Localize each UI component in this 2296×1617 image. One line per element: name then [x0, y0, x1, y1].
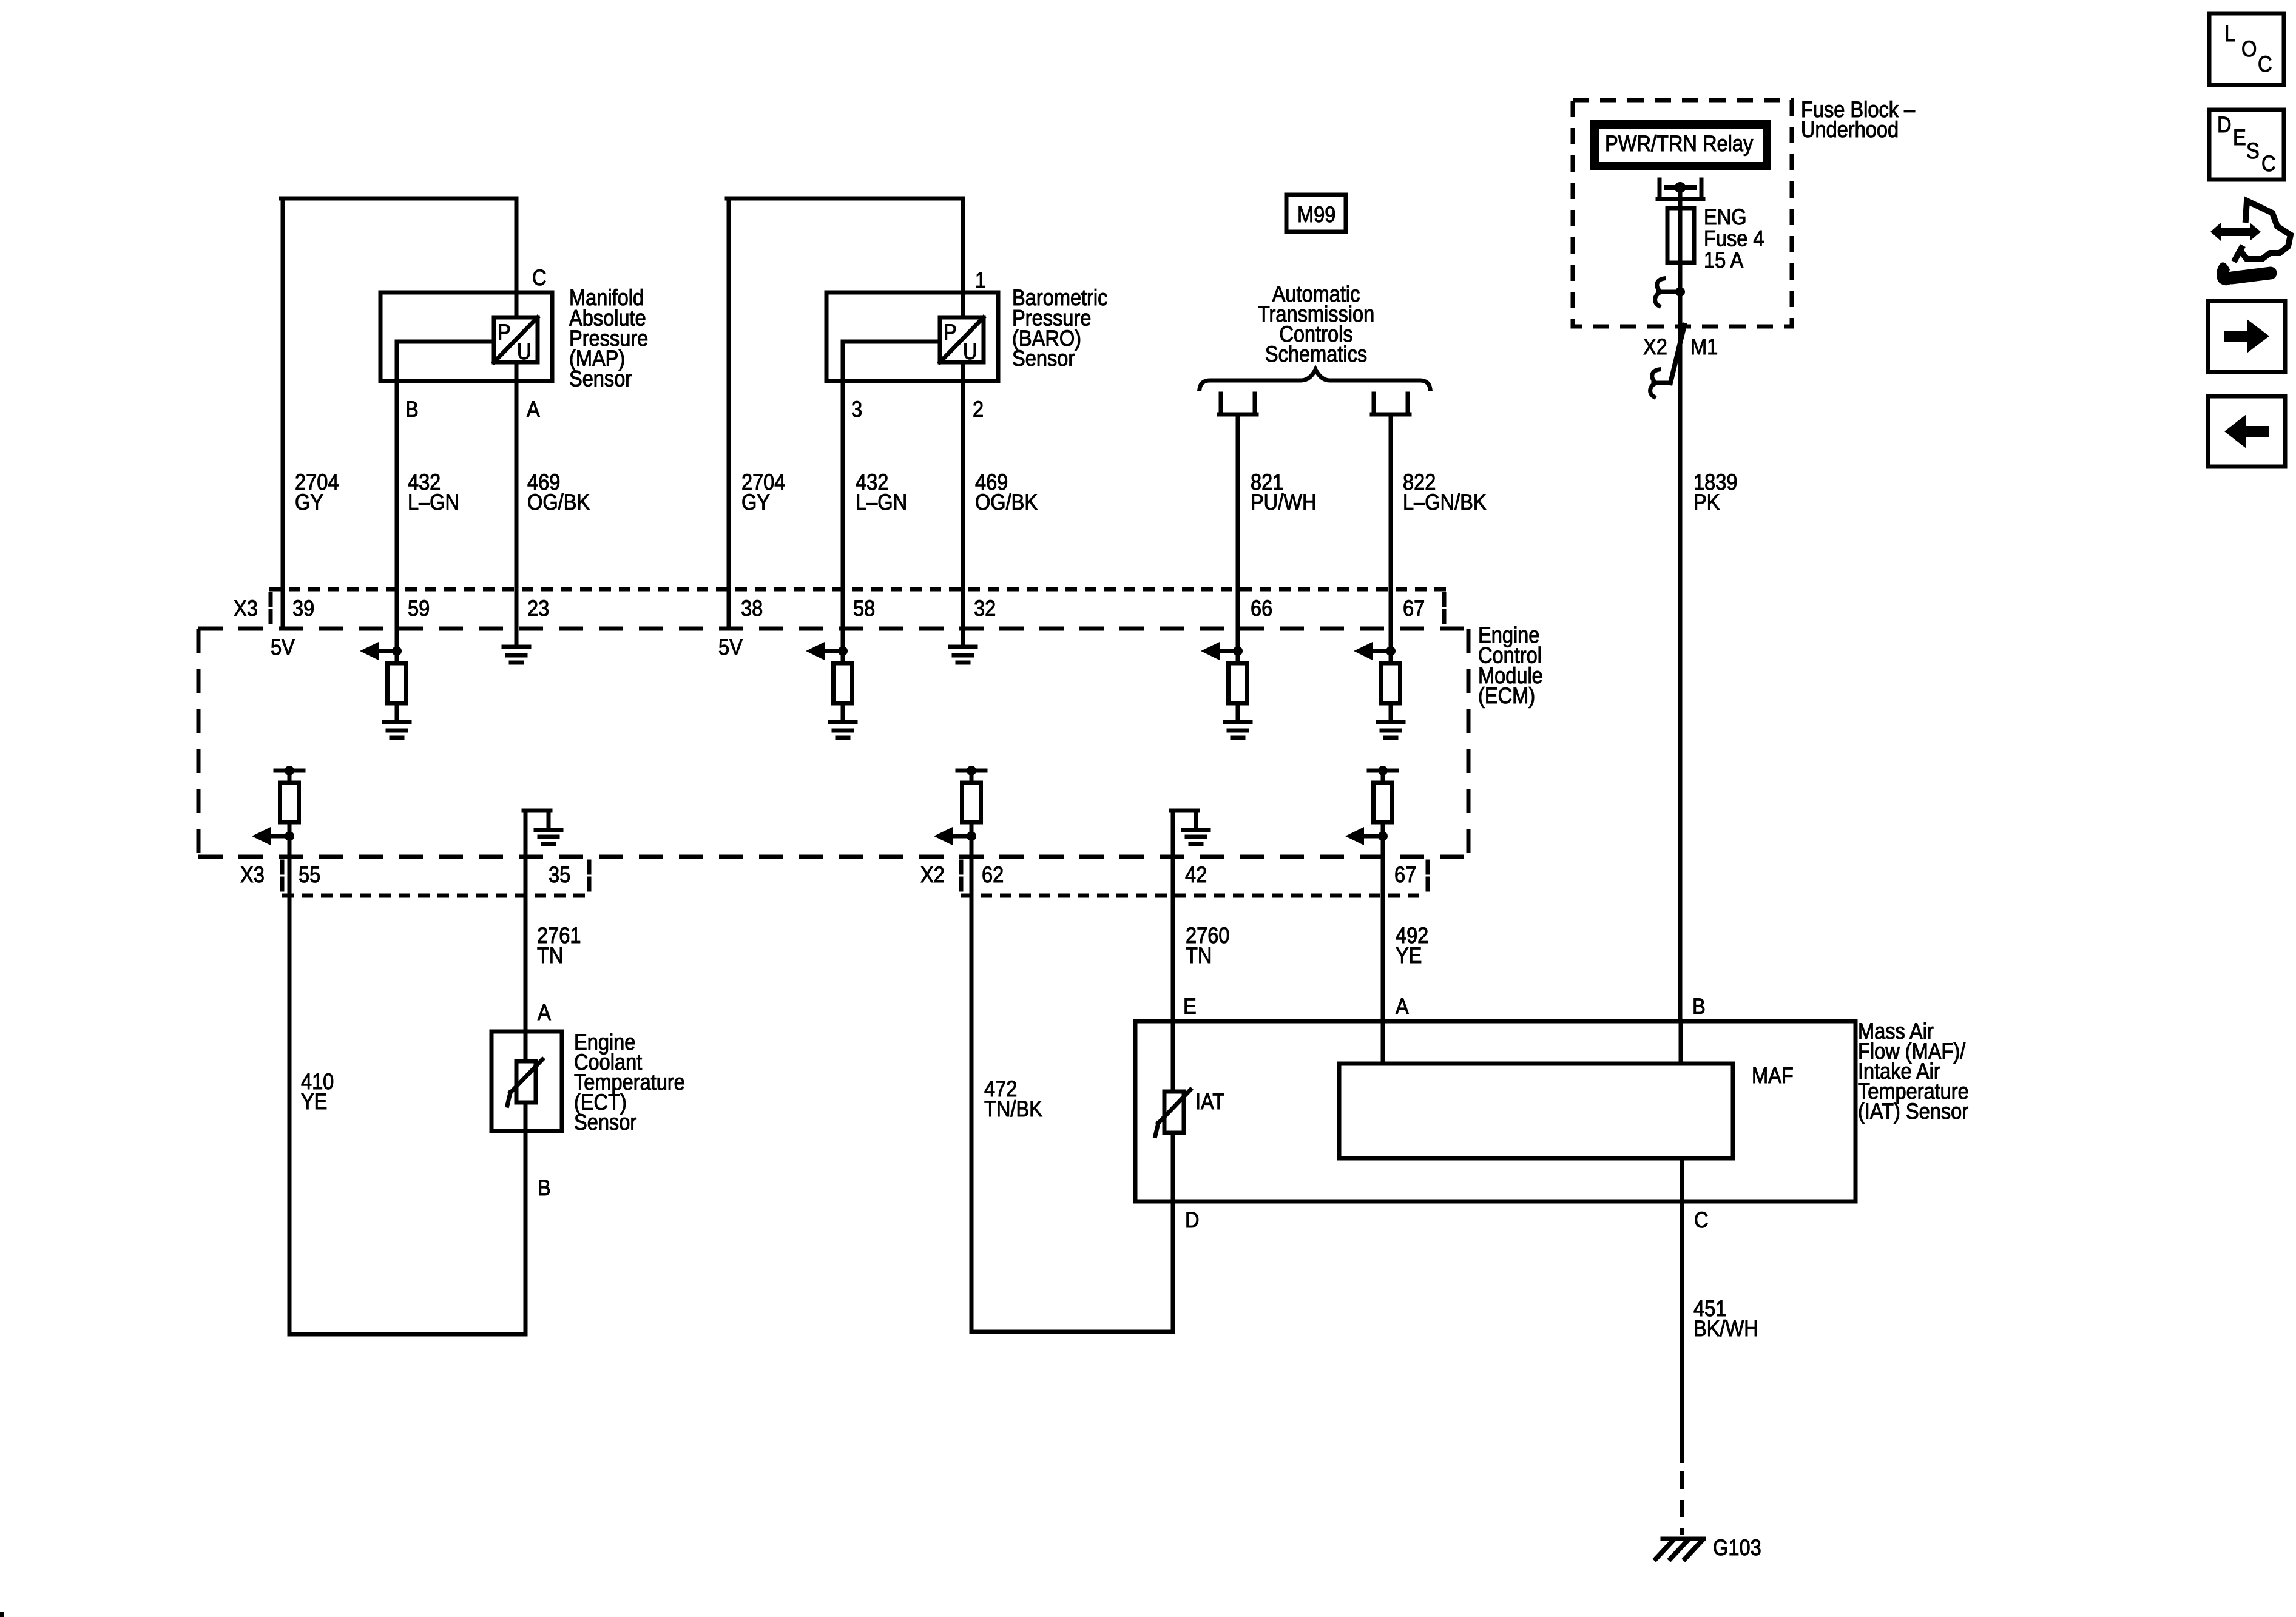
junction: fuse block internal tap: [1675, 287, 1685, 297]
svg-text:GY: GY: [295, 490, 323, 515]
svg-text:P: P: [498, 320, 511, 345]
resistor: ECM pull-down on BARO low reference (pin 58): [838, 646, 848, 656]
svg-text:E: E: [2233, 125, 2246, 150]
wire: MAF pin C ground, circuit 451 BK/WH: [1680, 1158, 1684, 1461]
connector hook lower: [1653, 381, 1670, 385]
connector separators row2: [280, 862, 285, 873]
wire: MAP 5V supply loop, circuit 2704 GY: [281, 198, 285, 629]
svg-text:X3: X3: [240, 862, 265, 887]
svg-text:5V: 5V: [271, 635, 295, 660]
relay output pin cup: [1658, 180, 1662, 199]
svg-text:MAF: MAF: [1752, 1063, 1794, 1088]
relay pin lead and junction: [1667, 185, 1694, 190]
connector bracket: transmission wire 822: [1372, 394, 1376, 414]
svg-text:S: S: [2246, 138, 2260, 163]
BARO sensor box: [826, 292, 998, 381]
svg-text:Schematics: Schematics: [1265, 342, 1367, 366]
fuse ENG Fuse 4 15 A: [1667, 208, 1694, 263]
svg-text:L: L: [2224, 21, 2235, 46]
wire A: MAP signal to ECM, circuit 469 OG/BK: [515, 362, 519, 647]
wire: circuit 2760 TN from ECM pin 42 to IAT pin E: [1171, 857, 1175, 1092]
svg-text:D: D: [1185, 1207, 1200, 1232]
MAP sensor P/U transducer symbol: [494, 317, 538, 362]
wire: MAP low reference, circuit 432 L-GN: [395, 342, 399, 663]
svg-text:5V: 5V: [718, 635, 743, 660]
svg-text:P: P: [944, 320, 957, 345]
wire: relay to fuse: [1678, 187, 1683, 208]
wire 3: BARO low reference stub: [843, 340, 940, 344]
M99 reference box: [1286, 195, 1346, 232]
wire 2: BARO signal to ECM, circuit 469 OG/BK: [961, 362, 965, 647]
thermistor: IAT sensor element: [1164, 1092, 1184, 1133]
connector row2: dotted line right segment: [961, 894, 1427, 898]
MAF electronics inner box: [1339, 1064, 1733, 1158]
wire: circuit 821 PU/WH to ECM pin 66: [1236, 414, 1240, 663]
svg-text:Sensor: Sensor: [574, 1110, 636, 1135]
svg-text:38: 38: [741, 596, 763, 621]
svg-text:(ECM): (ECM): [1478, 683, 1535, 708]
svg-text:G103: G103: [1713, 1535, 1761, 1560]
resistor: ECM 5V pull-up for ECT (pin 55): [275, 769, 303, 773]
svg-text:U: U: [517, 339, 532, 364]
wire 1: BARO signal, top segment: [961, 198, 965, 317]
wire: 451 dashed splice segment: [1680, 1471, 1684, 1535]
svg-text:B: B: [405, 397, 419, 422]
MAP sensor box: [380, 292, 552, 381]
svg-text:X2: X2: [920, 862, 945, 887]
svg-text:15 A: 15 A: [1704, 248, 1743, 272]
page corner dot: [0, 1612, 4, 1617]
svg-text:D: D: [2217, 112, 2232, 137]
ECM dashed outline right: [1467, 629, 1471, 857]
svg-text:X3: X3: [234, 596, 258, 621]
svg-text:3: 3: [851, 397, 862, 422]
resistor: ECM pull-down pin 67: [1386, 646, 1396, 656]
connector hook upper: [1657, 279, 1664, 290]
ground: MAP signal return inside ECM (pin 23): [504, 645, 529, 649]
wire: MAF pin B feed: [1679, 1021, 1683, 1064]
svg-text:A: A: [527, 397, 540, 422]
svg-text:BK/WH: BK/WH: [1693, 1316, 1758, 1341]
svg-text:IAT: IAT: [1195, 1089, 1224, 1114]
resistor: ECM 5V pull-up (pin 67): [1369, 769, 1397, 773]
svg-text:L–GN: L–GN: [408, 490, 459, 515]
wire: circuit 410 YE from ECM pin 55: [288, 857, 292, 1334]
ECM dashed outline left: [197, 629, 201, 857]
svg-text:M99: M99: [1297, 202, 1335, 227]
svg-text:59: 59: [408, 596, 430, 621]
svg-text:Underhood: Underhood: [1801, 117, 1899, 142]
svg-text:32: 32: [974, 596, 996, 621]
chassis ground G103: [1663, 1537, 1704, 1541]
svg-text:M1: M1: [1690, 334, 1718, 359]
connector X2 pin M1 pass-through slant: [1670, 325, 1684, 383]
ECM dashed outline top: [198, 627, 1471, 631]
svg-text:C: C: [1694, 1207, 1709, 1232]
wire: ECT loop bottom: [289, 1332, 525, 1337]
svg-text:YE: YE: [1396, 943, 1422, 968]
svg-text:TN: TN: [1186, 943, 1212, 968]
wire: circuit 822 L-GN/BK to ECM pin 67: [1389, 414, 1393, 663]
svg-text:B: B: [538, 1175, 551, 1200]
icon box left-arrow: [2208, 396, 2285, 467]
svg-text:Sensor: Sensor: [1012, 346, 1075, 371]
connector row2: dotted line left segment: [282, 894, 589, 898]
icon box LOC: [2209, 13, 2284, 85]
svg-text:PWR/TRN Relay: PWR/TRN Relay: [1605, 131, 1754, 156]
svg-text:OG/BK: OG/BK: [527, 490, 590, 515]
wire C: MAP signal, top segment: [515, 198, 519, 317]
svg-text:TN: TN: [537, 943, 563, 968]
svg-text:C: C: [2258, 52, 2272, 76]
connector row: dotted line: [269, 587, 1450, 592]
ground: ECM internal for IAT return (pin 42): [1171, 811, 1175, 857]
resistor: ECM 5V pull-up for IAT (pin 62): [957, 769, 985, 773]
svg-text:23: 23: [527, 596, 549, 621]
svg-text:35: 35: [549, 862, 570, 887]
thermistor: ECT sensor element: [524, 1031, 528, 1061]
svg-text:(IAT) Sensor: (IAT) Sensor: [1858, 1099, 1968, 1124]
svg-text:58: 58: [853, 596, 875, 621]
svg-text:E: E: [1183, 994, 1197, 1019]
wire: circuit 492 YE from ECM pin 67 to MAF pin A: [1381, 857, 1385, 1064]
wire: fuse to connector X2, circuit 1839 PK: [1678, 208, 1683, 1021]
connector bracket: transmission wire 821: [1219, 394, 1223, 414]
svg-text:C: C: [532, 265, 547, 290]
svg-text:YE: YE: [301, 1089, 327, 1114]
ground: ECM internal for ECT return (pin 35): [524, 811, 528, 857]
svg-text:PK: PK: [1693, 490, 1720, 515]
svg-text:67: 67: [1394, 862, 1416, 887]
ECM dashed outline bottom: [198, 855, 1471, 859]
ground: BARO signal return inside ECM (pin 32): [950, 645, 976, 649]
svg-text:67: 67: [1403, 596, 1425, 621]
icon: adjust/wrench symbol: [2210, 223, 2261, 241]
MAF/IAT sensor outer box: [1135, 1021, 1855, 1201]
brace: automatic transmission controls: [1200, 370, 1430, 389]
icon box DESC: [2209, 110, 2284, 180]
resistor: ECM pull-down on MAP low reference (pin 59): [392, 646, 402, 656]
svg-text:1: 1: [975, 268, 986, 292]
svg-text:Sensor: Sensor: [569, 366, 632, 391]
svg-text:2: 2: [973, 397, 984, 422]
connector separator dotted X3: [269, 594, 273, 605]
svg-text:42: 42: [1185, 862, 1207, 887]
svg-text:U: U: [963, 339, 977, 364]
wire: BARO low reference, circuit 432 L-GN: [841, 342, 845, 663]
svg-text:66: 66: [1251, 596, 1272, 621]
svg-text:A: A: [538, 1000, 551, 1025]
wire: circuit 2761 TN from ECM pin 35 to ECT pin A: [524, 857, 528, 1031]
connector separator dotted right end: [1442, 594, 1447, 605]
BARO sensor P/U transducer symbol: [940, 317, 984, 362]
wire: circuit 472 TN/BK from ECM pin 62: [970, 857, 974, 1332]
svg-text:L–GN: L–GN: [856, 490, 907, 515]
icon box right-arrow: [2208, 301, 2285, 372]
svg-text:55: 55: [299, 862, 320, 887]
ECT sensor box: [491, 1031, 562, 1131]
svg-text:A: A: [1396, 994, 1409, 1019]
wire: IAT pin D riser: [1171, 1133, 1175, 1332]
svg-text:C: C: [2261, 151, 2276, 176]
svg-text:B: B: [1692, 994, 1706, 1019]
svg-text:OG/BK: OG/BK: [975, 490, 1038, 515]
wire: BARO 5V supply loop, circuit 2704 GY: [727, 198, 731, 629]
wire: IAT loop bottom: [971, 1330, 1173, 1334]
svg-text:GY: GY: [741, 490, 770, 515]
resistor: ECM pull-down pin 66: [1233, 646, 1243, 656]
fuse block dashed outline: [1573, 100, 1792, 326]
svg-text:TN/BK: TN/BK: [984, 1096, 1042, 1121]
svg-text:X2: X2: [1643, 334, 1667, 359]
svg-text:39: 39: [292, 596, 314, 621]
PWR/TRN relay box: [1595, 124, 1767, 166]
svg-text:O: O: [2241, 36, 2257, 61]
wire B: MAP low reference stub: [397, 340, 494, 344]
svg-text:PU/WH: PU/WH: [1251, 490, 1317, 515]
svg-text:62: 62: [982, 862, 1004, 887]
svg-text:L–GN/BK: L–GN/BK: [1403, 490, 1487, 515]
wire: ECT pin B riser: [524, 1131, 528, 1334]
